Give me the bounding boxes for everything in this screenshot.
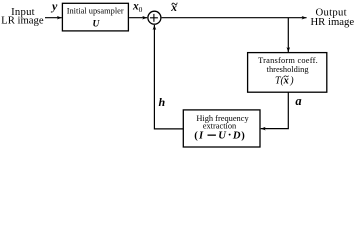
node label a	[295, 94, 301, 108]
wire: extraction output h, left then up into adder	[154, 25, 183, 129]
svg-text:~: ~	[284, 72, 289, 82]
label: Input LR image	[1, 6, 44, 27]
svg-text:U: U	[218, 130, 227, 141]
block U1: initial upsampler	[62, 3, 128, 31]
node label y	[50, 0, 58, 13]
node label x-tilde	[170, 0, 178, 14]
wire: adder output to HR image arrow	[162, 17, 307, 19]
block T: transform coefficient thresholding	[248, 53, 327, 93]
node label h	[159, 95, 166, 109]
svg-text:a: a	[295, 94, 301, 108]
adder: summing junction	[148, 11, 161, 24]
svg-text:LR image: LR image	[1, 15, 44, 27]
svg-text:·: ·	[228, 127, 232, 141]
svg-text:): )	[241, 130, 245, 141]
svg-text:I: I	[198, 130, 204, 141]
svg-text:Transform coeff.: Transform coeff.	[258, 56, 318, 65]
block HF: high frequency extraction	[183, 110, 260, 147]
svg-text:): )	[289, 75, 294, 86]
wire: transform output a, down then left into extraction box	[261, 92, 289, 128]
svg-text:D: D	[232, 130, 241, 141]
svg-text:0: 0	[139, 5, 143, 14]
wire: upsampler output to adder	[129, 17, 147, 19]
svg-text:HR image: HR image	[310, 16, 354, 28]
svg-text:~: ~	[171, 0, 178, 10]
label: Output HR image	[310, 7, 354, 29]
svg-text:h: h	[159, 95, 166, 109]
svg-text:(: (	[194, 130, 198, 141]
node label x0	[132, 1, 143, 14]
svg-text:Initial upsampler: Initial upsampler	[67, 6, 124, 15]
svg-text:extraction: extraction	[203, 122, 237, 131]
wire: input y arrow into upsampler	[45, 17, 62, 19]
wire: branch from output line down to transform box	[287, 18, 289, 52]
svg-text:U: U	[92, 20, 100, 30]
svg-text:y: y	[50, 0, 58, 13]
